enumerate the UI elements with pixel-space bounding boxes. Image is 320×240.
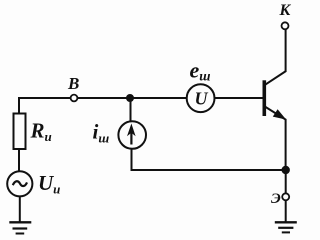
- wire emitter vertical down to junction: [285, 119, 287, 170]
- ground left bar1: [9, 221, 31, 223]
- svg-text:eш: eш: [190, 58, 211, 84]
- transistor emitter arrowhead: [273, 109, 286, 119]
- transistor VT base bar: [262, 80, 266, 116]
- ground right bar3: [282, 231, 290, 233]
- wire left vertical down to resistor: [18, 97, 20, 114]
- resistor Rи: [14, 114, 26, 150]
- wire base-mid horizontal from node B to e_sh source: [77, 97, 187, 99]
- current source i_sh arrow shaft: [130, 130, 132, 145]
- wire resistor to source Uи: [18, 149, 20, 172]
- ground right bar1: [275, 221, 297, 223]
- svg-text:В: В: [67, 74, 79, 93]
- ground left bar3: [16, 233, 25, 235]
- wire junction down to i_sh source: [130, 98, 132, 122]
- source Uи tilde symbol: [13, 181, 27, 186]
- svg-text:Uи: Uи: [38, 171, 60, 197]
- svg-text:Rи: Rи: [30, 119, 52, 145]
- node B open circle: [71, 95, 78, 102]
- terminal Э open circle: [282, 193, 289, 200]
- noise emf source e_sh circle: [187, 84, 215, 112]
- ground left bar2: [13, 227, 28, 229]
- wire collector vertical up to K terminal: [285, 29, 287, 72]
- transistor collector diagonal line: [265, 71, 286, 85]
- svg-text:К: К: [279, 2, 292, 19]
- wire terminal Э down to right ground: [285, 200, 287, 222]
- current source i_sh circle: [118, 121, 146, 149]
- wire base-right horizontal from e_sh source to transistor base: [215, 97, 263, 99]
- source Uи circle: [7, 171, 32, 196]
- transistor emitter diagonal line: [265, 107, 286, 120]
- wire bottom horizontal to emitter junction: [131, 169, 287, 171]
- wire junction down to terminal Э: [285, 170, 287, 193]
- svg-text:iш: iш: [93, 120, 110, 146]
- svg-text:Э: Э: [271, 191, 281, 207]
- current source i_sh arrowhead: [127, 124, 136, 137]
- terminal K open circle: [282, 22, 289, 29]
- junction dot emitter / bottom wire: [282, 166, 290, 174]
- wire i_sh source down to bottom wire: [131, 149, 133, 170]
- junction dot at base wire / i_sh branch: [126, 94, 134, 102]
- ground right bar2: [278, 227, 293, 229]
- svg-text:U: U: [195, 89, 209, 109]
- wire base-left horizontal from left corner to node B: [18, 97, 71, 99]
- wire source Uи to left ground: [19, 196, 21, 222]
